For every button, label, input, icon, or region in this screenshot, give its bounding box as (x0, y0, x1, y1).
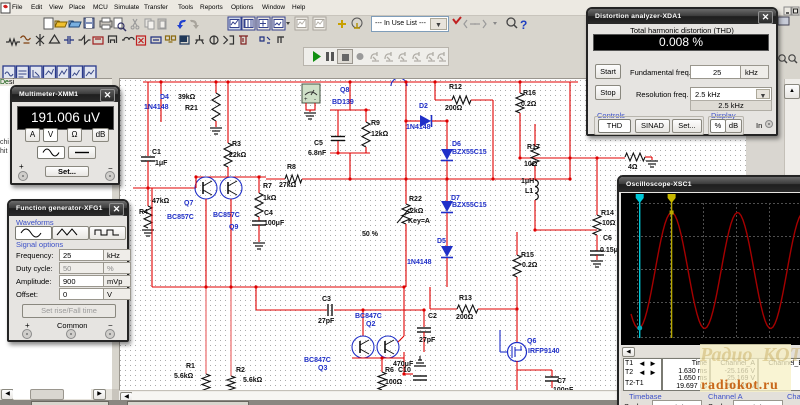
svg-text:1μH: 1μH (521, 178, 534, 185)
svg-text:22kΩ: 22kΩ (229, 152, 247, 159)
svg-text:Q6: Q6 (527, 338, 536, 345)
svg-text:1N4148: 1N4148 (406, 124, 431, 131)
svg-text:4Ω: 4Ω (628, 164, 638, 171)
svg-text:R21: R21 (185, 105, 198, 112)
svg-text:C10: C10 (398, 367, 411, 374)
svg-text:?: ? (520, 18, 527, 32)
svg-text:1kΩ: 1kΩ (263, 195, 277, 202)
svg-text:Q7: Q7 (184, 200, 193, 207)
svg-text:5.6kΩ: 5.6kΩ (243, 377, 263, 384)
svg-text:27pF: 27pF (419, 337, 436, 344)
svg-text:27pF: 27pF (318, 318, 335, 325)
svg-text:6.8nF: 6.8nF (308, 150, 327, 157)
svg-text:R17: R17 (527, 144, 540, 151)
svg-text:C1: C1 (152, 149, 161, 156)
svg-text:BD139: BD139 (332, 99, 354, 106)
svg-text:200Ω: 200Ω (445, 105, 463, 112)
svg-text:BZX55C15: BZX55C15 (452, 149, 487, 156)
svg-text:10Ω: 10Ω (524, 161, 538, 168)
svg-text:-: - (314, 97, 316, 103)
svg-text:Q8: Q8 (340, 87, 349, 94)
svg-text:D5: D5 (437, 238, 446, 245)
svg-text:Q9: Q9 (229, 224, 238, 231)
svg-text:2kΩ: 2kΩ (410, 208, 424, 215)
svg-text:BC847C: BC847C (304, 357, 331, 364)
svg-text:5.6kΩ: 5.6kΩ (174, 373, 194, 380)
svg-text:C5: C5 (314, 140, 323, 147)
svg-text:R22: R22 (409, 196, 422, 203)
svg-text:1N4148: 1N4148 (407, 259, 432, 266)
svg-text:R13: R13 (459, 295, 472, 302)
svg-text:1N4148: 1N4148 (144, 104, 169, 111)
svg-text:R1: R1 (186, 363, 195, 370)
svg-text:0.15μ: 0.15μ (600, 247, 618, 254)
svg-text:R8: R8 (287, 164, 296, 171)
svg-text:C3: C3 (322, 296, 331, 303)
svg-text:R15: R15 (521, 252, 534, 259)
svg-text:C2: C2 (428, 313, 437, 320)
svg-text:39kΩ: 39kΩ (178, 94, 196, 101)
svg-text:R4: R4 (139, 209, 148, 216)
svg-text:47kΩ: 47kΩ (152, 198, 170, 205)
svg-text:27kΩ: 27kΩ (279, 182, 297, 189)
svg-text:BC857C: BC857C (213, 212, 240, 219)
svg-text:R12: R12 (449, 84, 462, 91)
svg-text:IRFP9140: IRFP9140 (528, 348, 560, 355)
svg-text:Q2: Q2 (366, 321, 375, 328)
svg-text:C7: C7 (557, 378, 566, 385)
svg-text:Key=A: Key=A (408, 218, 430, 225)
svg-text:Q3: Q3 (318, 365, 327, 372)
svg-text:R3: R3 (232, 141, 241, 148)
svg-text:50 %: 50 % (362, 231, 379, 238)
svg-text:R9: R9 (371, 120, 380, 127)
svg-text:C6: C6 (603, 235, 612, 242)
svg-text:R6: R6 (385, 367, 394, 374)
svg-text:D6: D6 (452, 141, 461, 148)
svg-text:BC857C: BC857C (167, 214, 194, 221)
svg-text:R7: R7 (263, 183, 272, 190)
svg-text:100μF: 100μF (264, 220, 285, 227)
svg-text:BZX55C15: BZX55C15 (452, 202, 487, 209)
svg-text:0.2Ω: 0.2Ω (521, 101, 537, 108)
svg-text:10Ω: 10Ω (602, 220, 616, 227)
svg-text:R16: R16 (523, 90, 536, 97)
svg-text:1μF: 1μF (155, 160, 168, 167)
svg-text:L1: L1 (525, 188, 533, 195)
svg-text:BC847C: BC847C (355, 313, 382, 320)
svg-text:12kΩ: 12kΩ (371, 131, 389, 138)
svg-text:200Ω: 200Ω (456, 314, 474, 321)
svg-text:C4: C4 (264, 210, 273, 217)
svg-text:D7: D7 (451, 195, 460, 202)
svg-text:R14: R14 (601, 210, 614, 217)
svg-text:R2: R2 (236, 367, 245, 374)
svg-text:D4: D4 (160, 94, 169, 101)
svg-text:D2: D2 (419, 103, 428, 110)
svg-text:100Ω: 100Ω (385, 379, 403, 386)
svg-text:0.2Ω: 0.2Ω (522, 262, 538, 269)
svg-text:+: + (304, 97, 308, 103)
